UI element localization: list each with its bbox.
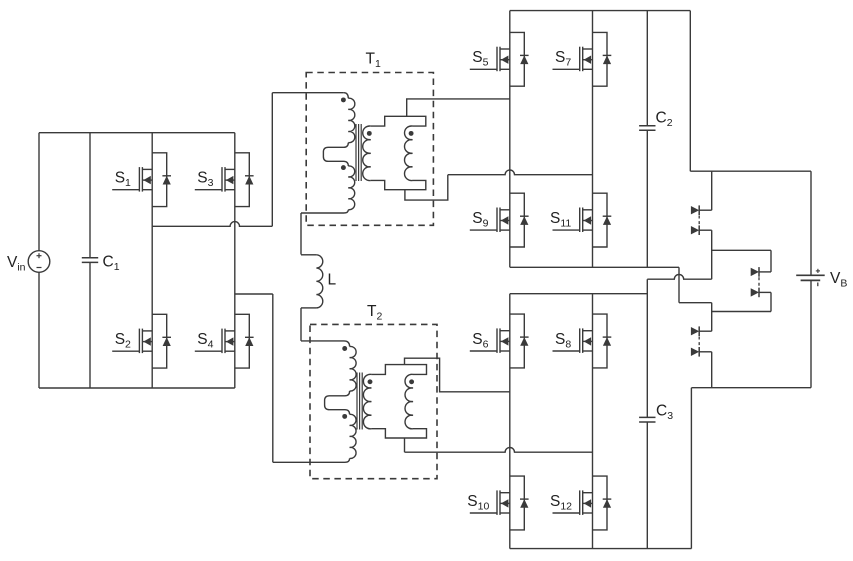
dashed link D3-D4 [758,277,760,287]
wire upper bridge leg A (S5,S9) [509,11,511,268]
wire Vin bottom [38,272,40,388]
T1 primary exit to inductor L [301,210,348,213]
wire lower bridge leg A (S6,S10) [509,294,511,549]
T1 secondary dot B [409,131,414,136]
capacitor C3 [639,417,655,422]
battery minus mark [817,283,819,287]
transistor S11 [553,193,612,247]
wire L to T2 [300,308,302,341]
wire input leg 1 (S1,S2) [151,133,153,388]
transistor S10 [470,476,529,530]
transistor S4 [195,314,254,368]
diode switch D2 [691,225,699,235]
svg-text:S7: S7 [555,49,571,68]
wire upper bridge bottom rail [510,266,679,268]
wire lower bridge leg B (S8,S12) [592,294,594,549]
T2 secondary top tap out [405,358,510,392]
svg-text:S6: S6 [472,331,488,351]
wire input leg 2 (S3,S4) [234,133,236,388]
transistor S9 [470,193,529,247]
transistor S3 [195,153,254,207]
transistor S6 [470,314,529,368]
T1 primary dot lower [341,165,346,170]
svg-text:C3: C3 [656,403,673,423]
T1 core [356,124,361,181]
wire upper bridge leg B (S7,S11) [592,11,594,268]
T2 secondary dot A [368,379,373,384]
svg-text:S10: S10 [467,493,489,513]
transistor S1 [112,153,171,207]
wire input top rail [39,132,235,134]
wire D6 cathode [699,351,712,353]
wire D5 cathode [699,330,712,332]
wire D4 cathode [759,291,771,293]
svg-text:S2: S2 [115,331,131,351]
T1 secondary bottom tap out (hop over left leg) [405,175,448,200]
wire D3 cathode [759,271,771,273]
T2 primary winding upper [344,341,350,347]
wire upper bridge top rail [510,10,691,12]
T2 secondary dot B [409,379,414,384]
wire input bottom rail [39,387,235,389]
svg-text:S11: S11 [550,210,571,230]
svg-text:C1: C1 [103,254,120,274]
T1 secondary winding B [405,126,413,180]
diode switch D4 [751,288,759,298]
T2 secondary top bracket [371,365,426,375]
transistor S7 [553,32,612,86]
diode switch D3 [751,267,759,277]
wire upper rail down branch [678,267,680,302]
wire net C horizontal [712,311,771,313]
T2 secondary winding A [363,374,371,428]
svg-text:S1: S1 [115,170,131,190]
transistor S5 [470,32,529,86]
battery VB [796,275,825,280]
diode switch D5 [691,326,699,336]
svg-text:S5: S5 [472,49,488,68]
T2 primary dot upper [342,346,347,351]
transistor S12 [553,476,612,530]
svg-text:L: L [328,272,337,289]
wire C2 branch [646,11,648,126]
svg-text:T1: T1 [366,51,381,71]
wire C1 branch [89,133,91,258]
wire C3 branch [646,279,648,417]
svg-text:T2: T2 [367,303,382,323]
T2 primary winding lower [350,414,356,458]
svg-text:S4: S4 [197,331,213,351]
svg-text:S3: S3 [197,170,213,190]
diode switch D1 [691,205,699,215]
wire Vin top [38,133,40,251]
wire net B horizontal [712,249,771,251]
T1 secondary dot A [367,131,372,136]
T2 secondary winding B [405,374,413,428]
voltage source Vin [28,251,50,273]
wire lower bridge top rail [510,293,648,295]
dashed link D5-D6 [698,337,700,347]
T1 secondary bottom bracket [371,180,426,189]
capacitor C2 [639,126,655,131]
svg-text:S9: S9 [472,210,488,230]
T2 primary dot lower [342,414,347,419]
T1 secondary top tap out [407,99,510,116]
svg-text:Vin: Vin [7,254,26,274]
T1 secondary winding A [363,126,371,180]
wire diode D2 to mid node [699,229,712,231]
wire battery positive net [689,11,691,172]
wire T1 to L [300,213,302,255]
capacitor C1 [82,258,98,263]
diode switch D6 [691,347,699,357]
T2 secondary bottom tap out (hop over left leg) [404,438,406,452]
transformer T1 dashed box [306,73,433,226]
T1 primary winding lower [348,166,354,210]
T1 primary winding upper [344,93,349,99]
wire leg1 midpoint to T1 primary (hop over leg2) [152,222,272,227]
T1 primary dot upper [341,97,346,102]
T1 secondary top bracket [371,116,426,126]
T1 primary series jog [323,143,348,166]
wire battery negative net [691,387,811,389]
battery plus mark [816,269,820,273]
svg-text:S12: S12 [550,493,572,513]
dashed link D1-D2 [698,216,700,226]
wire lower bridge bottom rail [510,548,692,550]
svg-text:S8: S8 [555,331,571,351]
T2 secondary bottom bracket [371,429,426,438]
transformer T2 dashed box [310,324,437,478]
T2 primary series jog [325,391,350,414]
svg-text:VB: VB [830,270,847,290]
wire leg2 midpoint to T2 primary return [235,293,273,295]
transistor S8 [553,314,612,368]
svg-text:C2: C2 [656,110,673,130]
wire diode D1 branch [711,171,713,210]
inductor L [301,254,316,256]
T2 core [357,373,362,430]
transistor S2 [112,314,171,368]
T2 primary exit [342,458,350,462]
wire net B to lower bridge (hop over x679) [647,275,711,280]
